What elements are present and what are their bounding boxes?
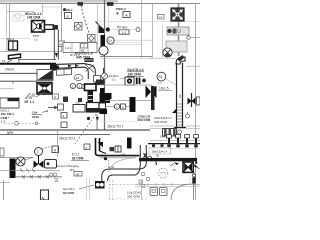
faint vertical x42 [42,3,44,15]
thin wall line y106.6 [105,106,130,108]
small tag left of diffuser [158,15,165,20]
svg-text:16: 16 [2,59,6,63]
svg-text:1-1: 1-1 [112,78,116,82]
faint vertical x108 [108,4,110,28]
circle glyph left [102,73,108,79]
blobs below wall [152,144,198,147]
dark corner elbow [53,25,59,30]
dashed diagonal leader [75,114,96,144]
Pri-Sec box [119,30,129,34]
tick marks [12,81,14,84]
line y176 w X ticks [16,176,62,178]
svg-text:≠5: ≠5 [173,168,177,172]
right duct elbow top [176,57,185,64]
circle-X damper [163,48,172,57]
filled dot [104,157,107,160]
svg-text:PWH-2: PWH-2 [116,7,126,11]
arrow to right [42,111,48,113]
ladder rungs [177,104,182,125]
RG-1 two-cell box [9,41,18,50]
symbol row: box with circle [125,77,134,85]
svg-text:1.4: 1.4 [1,119,6,123]
hatch line row y170 [0,169,60,171]
room line y52 left [0,51,62,53]
small circle at duct top [148,156,152,160]
faint line y88 [0,88,14,90]
room line y58 right [150,57,176,59]
filled dot [87,117,90,120]
box A bottom-left [52,146,59,153]
small box 3 [82,85,86,89]
elbow outline with X [85,64,96,79]
vertical line bottom-left [3,180,5,200]
leader [79,185,94,189]
dashed leader to box A [42,146,52,149]
diamond square 2 [88,35,96,43]
faint box top-left [13,15,24,21]
svg-text:26x12 TO.1: 26x12 TO.1 [107,125,124,129]
tick below band [155,162,158,166]
svg-text:Pri-Sec: Pri-Sec [117,26,128,30]
faint vertical x152 [152,4,154,58]
left edge marks [0,148,4,156]
dark triangle on duct [98,142,104,148]
box A on wall [121,104,126,109]
white box w arrow [58,104,64,110]
circled T [35,148,43,156]
big duct: wall down, across bottom, to OO box [102,145,147,181]
svg-text:16x1.5: 16x1.5 [159,87,169,91]
svg-text:82 CFM: 82 CFM [63,191,74,195]
svg-text:140 CFM: 140 CFM [128,72,141,76]
dark grille on vertical duct [96,80,105,86]
small circles right end [49,173,52,176]
black bar below wedge [101,35,106,48]
wall vertical x104 [104,0,106,130]
dashed circle sketch [158,168,168,178]
leader line top-right of box [37,92,45,97]
right duct vertical double line [176,63,178,127]
svg-text:A: A [54,95,56,99]
thick L duct center [95,138,97,154]
S2 circle [157,72,166,81]
top border gray band [0,0,118,3]
faint verticals left of OO [87,178,90,200]
dark tick x64 [64,8,66,11]
circled 1 [70,83,75,88]
svg-text:26x12 TO.1: 26x12 TO.1 [59,136,76,140]
svg-text:CFM: CFM [32,115,39,119]
faint vertical x162 [162,25,164,58]
S2 leader [166,79,176,85]
vertical wall x57 [57,131,59,157]
flange at duct bottom [174,127,186,129]
svg-text:-16-: -16- [75,101,80,105]
equipment gray rect 2 [166,41,187,52]
line from circle to right [190,37,200,39]
black bar vertical [100,88,105,103]
horizontal line y78 center-right [120,78,124,80]
dark box center [87,103,100,113]
valve on vertical line [193,173,195,187]
dashed vertical x190 [189,172,191,186]
svg-text:26x2C: 26x2C [4,68,15,72]
svg-text:146 CFM: 146 CFM [27,16,40,20]
box A right of JP20 [53,94,59,99]
circled A thermostat [16,157,25,166]
center small boxes under dark box [61,113,67,119]
faint line y40 center [108,39,152,41]
star symbol [142,78,146,82]
svg-text:200 CFM: 200 CFM [138,118,151,122]
diffuser box with X top-left [32,21,45,33]
black wedge left of wall [99,25,105,34]
faint vertical grid line left2 [9,3,11,52]
dark elbow transition right end of thick duct [50,63,59,71]
damper parallelograms under duct [57,69,72,76]
box with glyph [84,144,90,150]
black bar top [100,93,105,103]
svg-text:1-1: 1-1 [122,30,127,34]
circled 1 on wall [114,104,119,109]
faint vertical grid line x97 [97,4,99,44]
right room lines y126-128 [150,125,174,127]
flow arrowheads [68,65,72,68]
(41) tag [59,41,65,47]
dark X mark at duct corner [144,153,148,158]
svg-text:1-1: 1-1 [158,81,162,85]
wall black wedge left edge [151,86,155,110]
equipment gray rect 1 [167,27,189,35]
vertical dashed x108 [108,160,110,168]
horizontal line y84 center-right [100,84,152,86]
faint horizontal y7 [42,6,62,8]
wall y155.6 [100,155,140,157]
dark bar inside top [8,98,20,101]
top border line [0,3,200,5]
svg-text:Ala Bcm: Ala Bcm [108,74,120,78]
door arc bottom-right [171,184,193,200]
VA box [74,172,82,177]
vertical line x141 bottom [141,180,143,200]
svg-text:1-1: 1-1 [158,15,162,19]
OO dark box [95,181,105,189]
black ladder column [88,91,94,104]
svg-text:a: a [67,14,69,18]
scattered small symbols [139,172,150,187]
box bottom-left [41,190,49,200]
checkered diffuser top-right [171,8,184,21]
thick dark duct band y158 [139,158,197,161]
thin line y81 [0,80,37,82]
double bars [136,78,138,85]
arrow right of diffuser [194,164,198,167]
faint circle top-left [15,13,21,19]
faint horizontal y11 top-left [6,11,34,13]
svg-text:S2: S2 [158,75,162,79]
leader from A [25,157,33,160]
small dark squares near y147 [110,147,115,151]
svg-text:16ø CD=1.4: 16ø CD=1.4 [152,150,168,154]
horizontal line y100 center-right [105,100,151,102]
thick duct line left [0,63,56,65]
faint line y38 [0,38,30,40]
svg-text:333 CPM: 333 CPM [154,120,167,124]
svg-text:1-1: 1-1 [34,38,38,42]
filled node dot [106,27,110,31]
black valve bowtie [34,155,44,168]
svg-text:G+: G+ [108,39,112,43]
white circle column [99,46,108,55]
dark triangle transition [37,70,53,81]
svg-text:300 CFM: 300 CFM [127,195,140,199]
svg-text:<-2: <-2 [121,152,125,156]
wall vertical x178 gray [178,4,180,56]
black foot [100,109,108,114]
faint vertical x141 [141,0,143,58]
faint vertical grid line left [6,3,8,52]
vertical duct from diffuser stub [53,30,55,60]
svg-text:PPP: PPP [33,34,39,38]
small circle right of units [178,130,182,134]
duct piece parallelogram [9,54,21,59]
black bar x127 [127,138,132,149]
black bowtie damper left of duct [146,86,156,98]
room line y66 far right [186,65,200,67]
T-posts above wall [167,135,199,144]
svg-text:A: A [122,105,124,109]
2o circle label [74,75,83,81]
circled 2 [77,83,82,88]
wall y143.6 dark [148,143,200,145]
faint vertical grid line x62 [61,4,63,52]
diamond square 1 [75,23,83,31]
svg-text:1-2.1: 1-2.1 [65,46,71,50]
down arrowhead in duct [55,53,58,58]
black bar right [130,97,136,112]
svg-text:PWH-1: PWH-1 [63,8,73,12]
dark rect top center [78,2,84,5]
arrow left of diffuser [174,162,179,165]
dashed leaders [87,70,89,82]
open circle below rect1 [187,36,191,40]
box A PWH-1 [65,13,72,19]
dark box top right of bar [105,93,112,99]
center duct double line [54,63,85,66]
dashed leader with circles [4,122,40,124]
small circle right of duct [186,114,190,118]
dot left of box [117,13,119,15]
dashed equipment lines [109,180,148,200]
white window [99,103,106,109]
lines y184-186 right [135,183,200,185]
svg-text:26: 26 [55,179,59,183]
svg-text:8ø: 8ø [178,94,182,98]
dashed leader vertical [81,5,92,44]
svg-text:NT 1.1: NT 1.1 [25,100,35,104]
svg-text:VA: VA [76,172,80,176]
bowtie X box [37,83,52,95]
checkered diffuser bottom-right [183,162,193,172]
dashed line below [150,148,200,150]
svg-text:2ø: 2ø [76,76,80,80]
duct stub right of diffuser [45,25,54,30]
pump rounded rect [45,160,57,169]
svg-text:Ky=CD-1.4: Ky=CD-1.4 [128,68,144,72]
small dark rect x64 y101 [63,97,68,103]
vertical duct double line [94,79,96,86]
upper thin duct line [18,59,56,61]
faint line y121.5 [100,121,137,123]
open circle node [136,28,140,32]
svg-text:% asc Charging: % asc Charging [57,164,79,168]
door arc [109,158,134,172]
furniture bottom-right [150,188,167,196]
G+ circle [107,37,114,44]
svg-text:NFe: NFe [7,131,13,135]
band corner piece [195,161,197,164]
thin vertical with arrow [96,114,98,130]
wall y140 right thin [150,139,200,141]
line y157 [0,157,33,159]
VAV box white thick border [85,84,97,91]
thin line y73 [0,72,37,74]
svg-text:82 CFM: 82 CFM [72,157,84,161]
dark arrowhead on right duct [172,108,177,113]
white box center [73,105,85,113]
faint line y44 center [108,43,141,45]
faint label frame [149,147,171,154]
dark rect above PWH-2 [107,2,114,6]
svg-text:T: T [37,150,39,154]
right valve assembly bottom [188,93,201,107]
box A PWH-2 [123,12,130,18]
room line y56 center [100,56,152,58]
cabinet row under boiler room [63,43,97,53]
duct inline units row [163,129,177,137]
line between nodes [110,29,136,31]
black bar left [10,159,16,179]
dark grille rect top [85,58,94,62]
box top-left middle [0,98,19,108]
dark cap top (rotated) [178,55,185,62]
faint vertical x196 [195,4,197,200]
box outline right [94,76,101,83]
faint horizontal y21 right [98,21,200,23]
